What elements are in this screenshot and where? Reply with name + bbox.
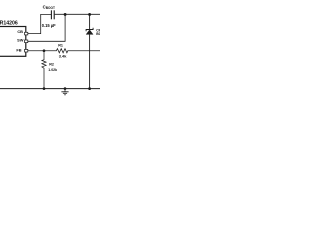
svg-text:3.4k: 3.4k bbox=[59, 53, 67, 58]
svg-text:CBOOT: CBOOT bbox=[43, 4, 55, 10]
svg-text:FB: FB bbox=[16, 48, 21, 53]
svg-text:R2: R2 bbox=[49, 62, 54, 66]
svg-text:CB: CB bbox=[17, 29, 23, 34]
svg-text:R1: R1 bbox=[58, 44, 63, 48]
svg-text:R14206: R14206 bbox=[0, 21, 18, 27]
svg-text:0.15 µF: 0.15 µF bbox=[42, 23, 56, 28]
svg-text:1.02k: 1.02k bbox=[48, 68, 57, 72]
svg-text:SW: SW bbox=[17, 38, 24, 43]
svg-text:B0: B0 bbox=[96, 32, 100, 36]
